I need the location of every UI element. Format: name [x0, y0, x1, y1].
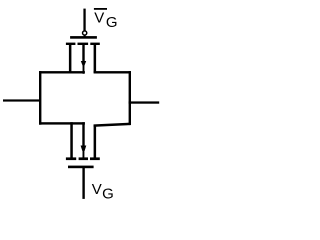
box island bottom edge right segment	[94, 123, 130, 127]
wire left source lead	[3, 99, 41, 101]
svg-text:V: V	[92, 181, 102, 198]
wire top right stem	[94, 45, 97, 73]
capacitor top cap left finger	[66, 43, 76, 45]
arrow top (pointing down into box)	[81, 61, 86, 68]
box island top edge left segment	[39, 71, 85, 73]
svg-text:G: G	[102, 185, 114, 202]
label VG-bar overbar	[94, 8, 107, 10]
wire bottom gate lead	[82, 168, 84, 199]
wire bottom left prong	[70, 122, 73, 158]
node open-circle terminal	[83, 31, 87, 35]
box island right edge	[129, 71, 131, 125]
wire circle-to-plate nub	[84, 35, 86, 37]
svg-text:G: G	[106, 14, 118, 31]
capacitor bottom cap middle finger	[79, 157, 88, 160]
wire bottom right prong	[94, 125, 97, 159]
box island top edge right segment	[94, 71, 131, 73]
capacitor top gate plate	[70, 36, 97, 39]
capacitor bottom cap left finger	[66, 157, 76, 160]
svg-text:V: V	[94, 10, 104, 27]
wire top arrow tip nub	[83, 66, 85, 74]
capacitor top cap middle finger	[78, 43, 89, 45]
box island left edge	[39, 71, 41, 125]
arrow bottom (pointing down to bottom cap)	[81, 146, 87, 155]
wire bottom middle stem	[82, 122, 84, 146]
wire bottom arrow tip nub	[83, 152, 85, 158]
capacitor bottom gate plate	[68, 166, 94, 169]
wire top left stem	[69, 45, 72, 73]
box island bottom edge left segment	[39, 122, 85, 124]
wire top middle stem	[82, 45, 84, 62]
wire right drain lead	[129, 101, 160, 103]
wire top gate lead	[83, 9, 85, 31]
capacitor bottom cap right finger	[90, 157, 100, 160]
capacitor top cap right finger	[90, 43, 100, 45]
